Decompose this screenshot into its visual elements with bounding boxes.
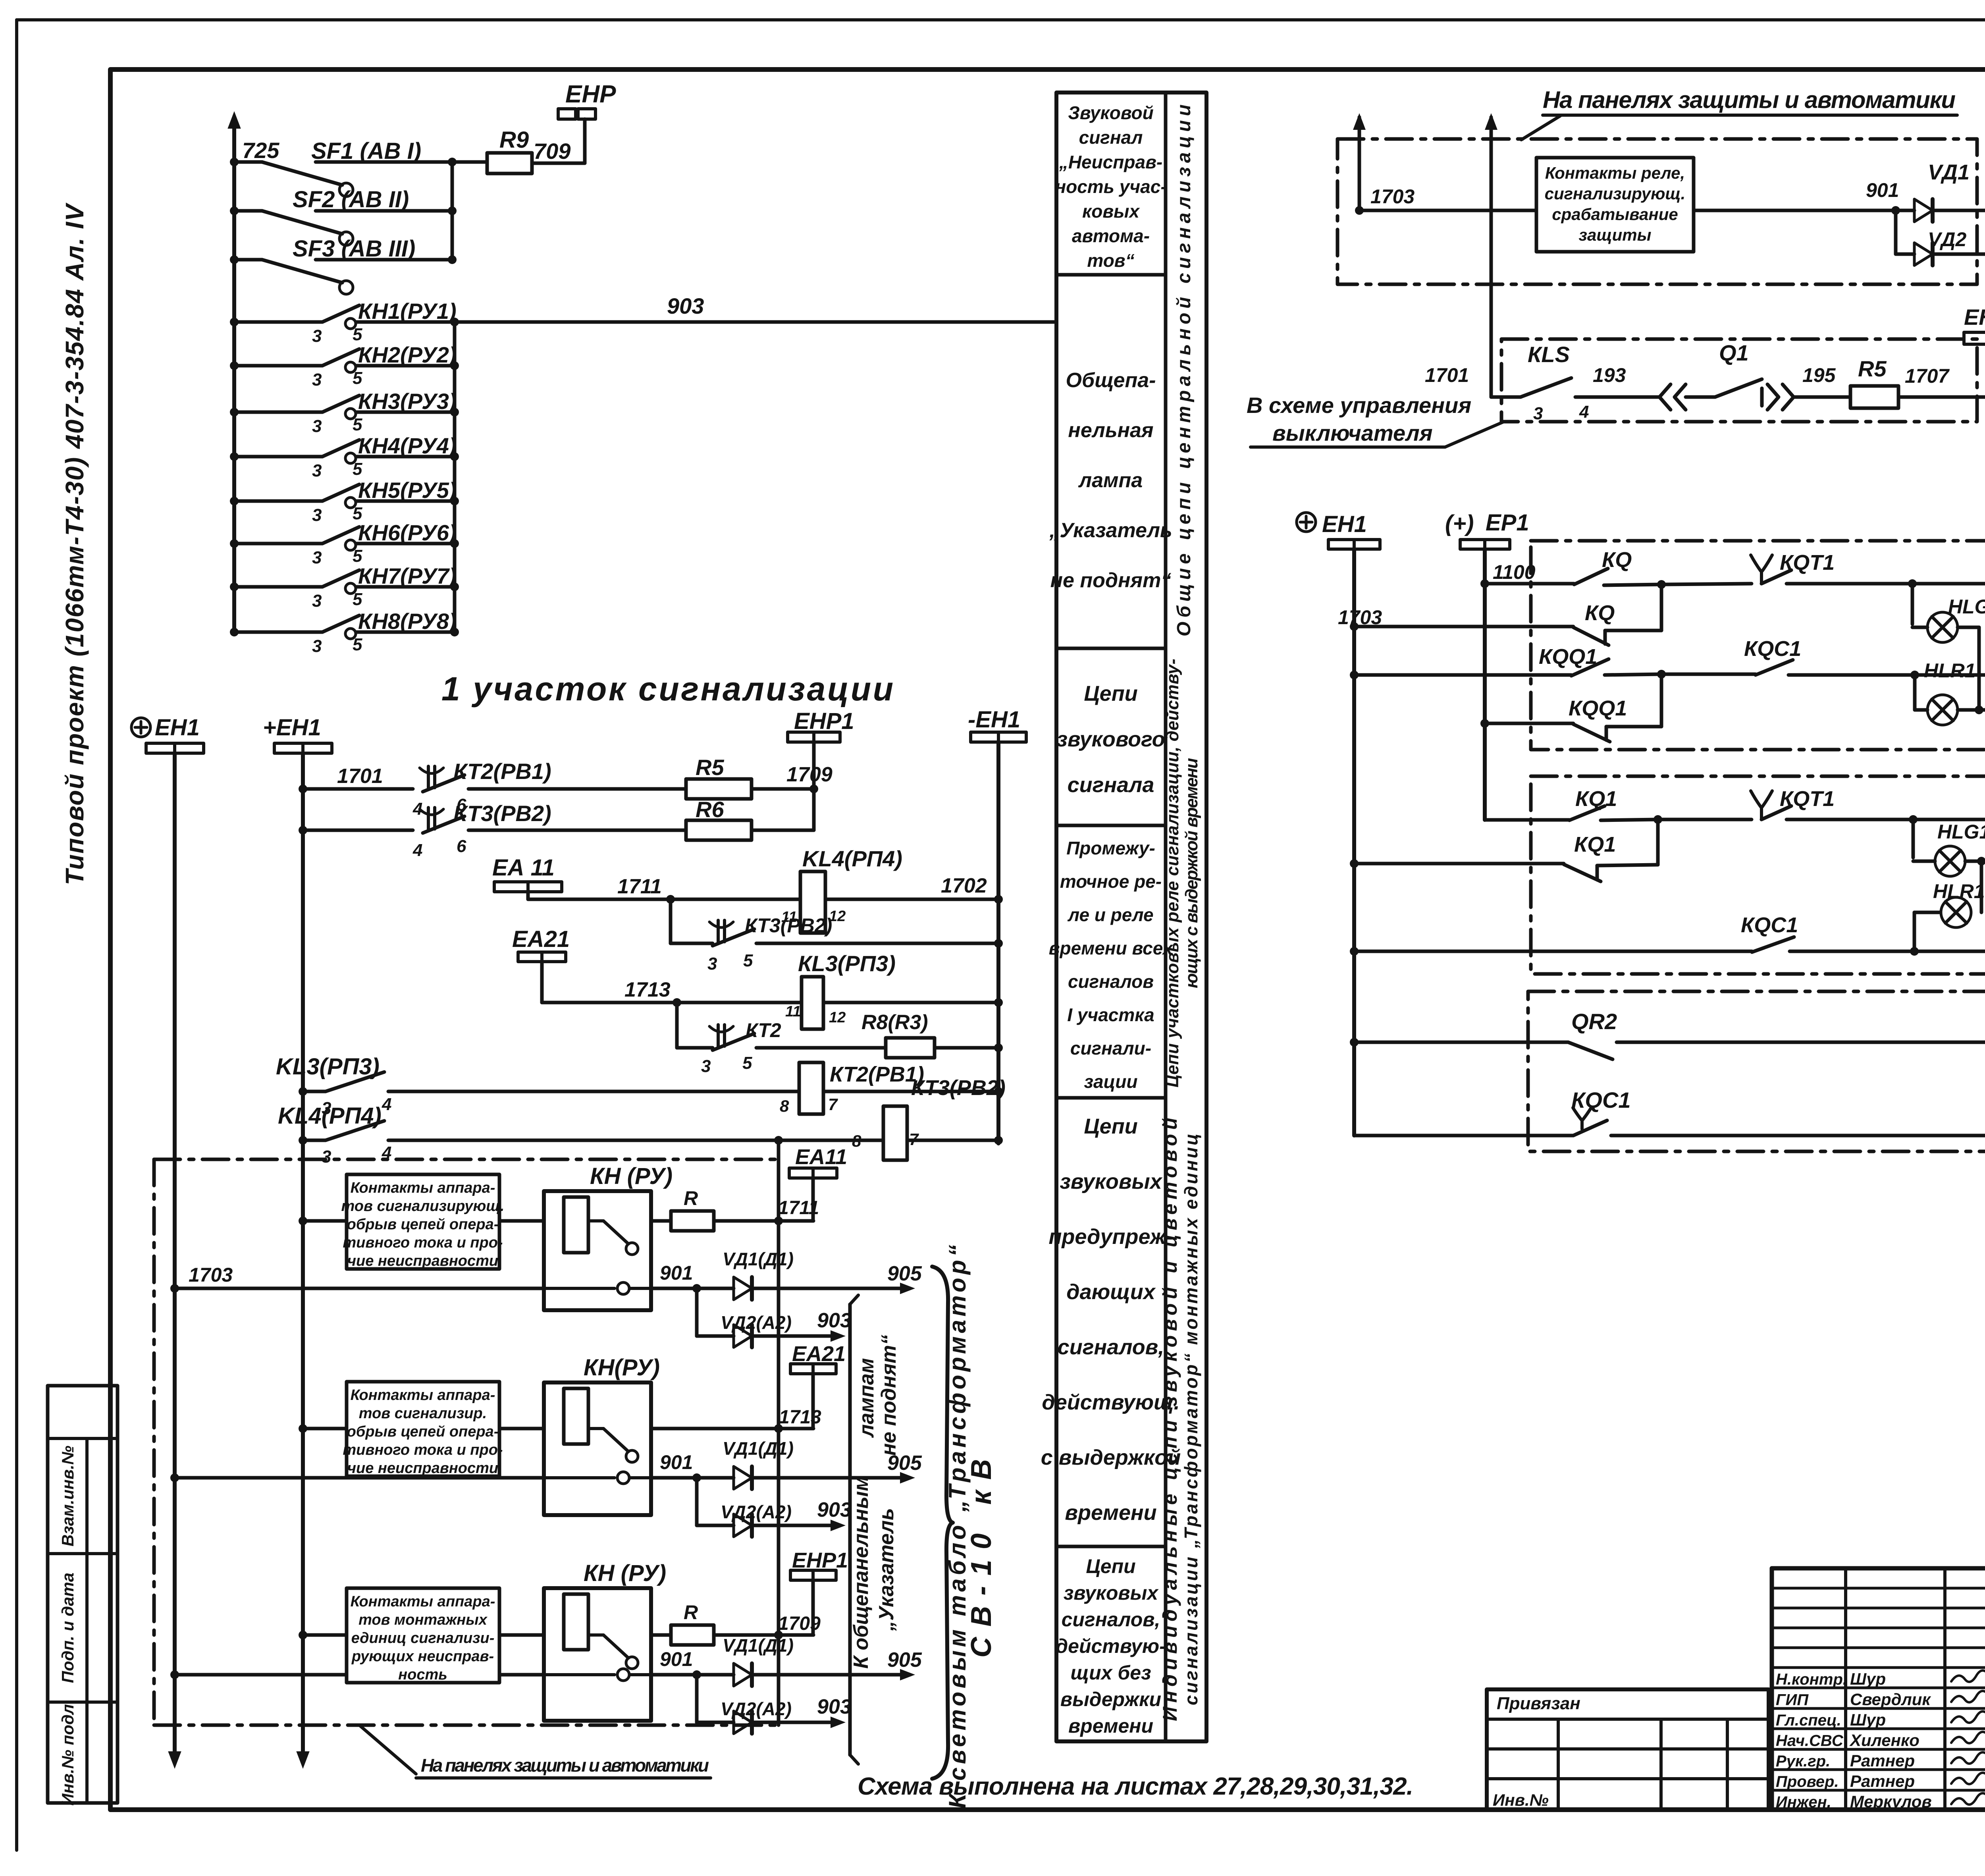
svg-text:Общие цепи центральной сигн: Общие цепи центральной сигнализации: [1174, 104, 1195, 636]
svg-text:„Указатель: „Указатель: [1049, 519, 1172, 542]
svg-text:В схеме управления: В схеме управления: [1247, 393, 1471, 418]
svg-text:ЕА11: ЕА11: [795, 1145, 847, 1169]
svg-text:КL3(РП3): КL3(РП3): [798, 951, 896, 976]
svg-text:обрыв цепей опера-: обрыв цепей опера-: [347, 1423, 499, 1440]
svg-text:Цепи: Цепи: [1084, 1114, 1137, 1138]
svg-text:SF1 (АВ I): SF1 (АВ I): [311, 138, 421, 164]
svg-text:лампам: лампам: [855, 1358, 878, 1438]
svg-text:КН6(РУ6): КН6(РУ6): [358, 520, 457, 545]
svg-text:защиты: защиты: [1579, 226, 1652, 244]
svg-text:Промежу-: Промежу-: [1066, 838, 1155, 858]
svg-text:R8(R3): R8(R3): [861, 1011, 928, 1034]
svg-text:КТ2(РВ1): КТ2(РВ1): [453, 759, 551, 784]
svg-text:VД1: VД1: [1928, 160, 1970, 184]
svg-text:5: 5: [353, 590, 362, 609]
svg-text:времени: времени: [1068, 1715, 1153, 1737]
svg-text:Q1: Q1: [1719, 340, 1749, 365]
svg-text:тов сигнализир.: тов сигнализир.: [359, 1405, 487, 1422]
svg-text:3: 3: [312, 461, 322, 480]
svg-text:3: 3: [312, 591, 322, 611]
svg-text:ковых: ковых: [1082, 201, 1140, 222]
svg-text:Провер.: Провер.: [1776, 1773, 1839, 1791]
svg-text:КН7(РУ7): КН7(РУ7): [358, 563, 457, 588]
svg-text:1707: 1707: [1905, 365, 1950, 387]
svg-text:КН3(РУ3): КН3(РУ3): [358, 389, 457, 414]
svg-text:выдержки: выдержки: [1060, 1688, 1161, 1710]
svg-text:ЕНА1: ЕНА1: [1964, 305, 1985, 330]
svg-text:903: 903: [817, 1695, 852, 1718]
svg-text:КQT1: КQT1: [1780, 787, 1835, 811]
svg-text:единиц сигнализи-: единиц сигнализи-: [351, 1630, 495, 1647]
svg-text:Н.контр.: Н.контр.: [1776, 1671, 1847, 1688]
svg-text:3: 3: [707, 954, 717, 974]
svg-text:тивного тока и про-: тивного тока и про-: [343, 1234, 503, 1251]
svg-text:3: 3: [312, 636, 322, 656]
svg-text:КQT1: КQT1: [1780, 551, 1835, 575]
svg-text:Рук.гр.: Рук.гр.: [1776, 1753, 1830, 1770]
svg-text:ность: ность: [398, 1666, 447, 1683]
svg-text:КТ2: КТ2: [746, 1019, 781, 1041]
svg-text:1 участок сигнализации: 1 участок сигнализации: [441, 670, 893, 708]
svg-text:8: 8: [780, 1097, 789, 1115]
svg-text:5: 5: [743, 951, 753, 970]
svg-text:Подп. и дата: Подп. и дата: [58, 1573, 77, 1683]
svg-text:сигнал: сигнал: [1079, 127, 1143, 148]
svg-text:3: 3: [322, 1147, 331, 1166]
svg-text:тивного тока и про-: тивного тока и про-: [343, 1442, 503, 1458]
svg-text:Схема выполнена на листах 27,: Схема выполнена на листах 27,28,29,30,31…: [858, 1773, 1413, 1800]
svg-text:Контакты реле,: Контакты реле,: [1545, 164, 1685, 182]
svg-text:КТ3(РВ2): КТ3(РВ2): [911, 1076, 1006, 1100]
svg-text:Контакты аппара-: Контакты аппара-: [351, 1387, 495, 1404]
svg-text:КН (РУ): КН (РУ): [584, 1560, 666, 1586]
svg-text:времени всех: времени всех: [1049, 938, 1174, 958]
svg-text:КQ: КQ: [1602, 548, 1632, 572]
svg-text:тов“: тов“: [1087, 250, 1134, 271]
svg-text:KL4(РП4): KL4(РП4): [802, 846, 902, 871]
svg-text:НLG1: НLG1: [1937, 821, 1985, 843]
svg-text:чие неисправности: чие неисправности: [347, 1253, 498, 1269]
svg-text:Контакты аппара-: Контакты аппара-: [351, 1593, 495, 1610]
svg-text:5: 5: [353, 635, 362, 654]
svg-text:R: R: [684, 1187, 698, 1209]
svg-text:„Неисправ-: „Неисправ-: [1059, 152, 1162, 172]
svg-text:Общепа-: Общепа-: [1066, 369, 1156, 392]
svg-text:3: 3: [312, 370, 322, 389]
svg-text:VД2(А2): VД2(А2): [721, 1502, 792, 1522]
svg-text:4: 4: [1579, 402, 1589, 422]
svg-text:щих без: щих без: [1070, 1662, 1151, 1684]
svg-text:КQ: КQ: [1585, 601, 1615, 625]
svg-text:195: 195: [1802, 364, 1836, 386]
svg-text:KL3(РП3): KL3(РП3): [276, 1054, 380, 1080]
svg-text:Свердлик: Свердлик: [1850, 1690, 1931, 1709]
svg-text:I участка: I участка: [1067, 1005, 1154, 1025]
svg-text:Контакты аппара-: Контакты аппара-: [351, 1180, 495, 1196]
svg-text:рующих неисправ-: рующих неисправ-: [351, 1648, 494, 1665]
svg-text:-ЕН1: -ЕН1: [968, 707, 1020, 733]
svg-text:1701: 1701: [1425, 364, 1469, 386]
svg-text:R9: R9: [499, 127, 529, 153]
svg-text:903: 903: [817, 1498, 852, 1521]
svg-text:сигналов: сигналов: [1068, 971, 1154, 992]
svg-text:Цепи: Цепи: [1084, 682, 1137, 706]
svg-text:3: 3: [701, 1057, 711, 1076]
svg-text:ющих с выдержкой времени: ющих с выдержкой времени: [1182, 758, 1201, 988]
svg-text:QR2: QR2: [1571, 1009, 1617, 1034]
svg-text:НLR1: НLR1: [1924, 659, 1976, 682]
svg-text:3: 3: [312, 416, 322, 436]
svg-text:VД2: VД2: [1928, 228, 1966, 251]
svg-text:1701: 1701: [337, 765, 383, 788]
svg-text:обрыв цепей опера-: обрыв цепей опера-: [347, 1216, 499, 1233]
svg-text:1100: 1100: [1493, 561, 1536, 583]
svg-text:Нач.СВС: Нач.СВС: [1776, 1732, 1844, 1750]
svg-text:KL4(РП4): KL4(РП4): [278, 1103, 382, 1129]
svg-text:ЕНР: ЕНР: [565, 81, 616, 108]
svg-text:R5: R5: [696, 755, 724, 780]
svg-text:(+): (+): [1445, 511, 1474, 536]
svg-text:НLG1: НLG1: [1948, 596, 1985, 618]
svg-text:ЕА 11: ЕА 11: [492, 855, 555, 881]
svg-text:709: 709: [534, 139, 570, 164]
svg-text:Инжен.: Инжен.: [1776, 1793, 1831, 1811]
svg-text:VД1(Д1): VД1(Д1): [723, 1635, 794, 1656]
svg-text:КТ3(РВ2): КТ3(РВ2): [453, 801, 551, 826]
svg-text:КН (РУ): КН (РУ): [590, 1163, 673, 1189]
svg-text:не поднят“: не поднят“: [877, 1335, 900, 1456]
svg-text:6: 6: [457, 837, 466, 856]
svg-text:Хиленко: Хиленко: [1849, 1731, 1919, 1750]
svg-text:+ЕН1: +ЕН1: [263, 715, 321, 740]
svg-text:12: 12: [829, 1009, 846, 1026]
svg-text:На панелях защиты и автоматик: На панелях защиты и автоматики: [1543, 87, 1956, 113]
svg-text:ность учас-: ность учас-: [1055, 176, 1166, 197]
svg-text:Цепи: Цепи: [1086, 1555, 1135, 1577]
svg-text:Инв.№ подл.: Инв.№ подл.: [58, 1699, 77, 1805]
svg-text:VД2(А2): VД2(А2): [721, 1699, 792, 1719]
svg-text:сигналов,: сигналов,: [1062, 1608, 1160, 1631]
svg-text:НLR1: НLR1: [1933, 880, 1985, 902]
svg-text:КН(РУ): КН(РУ): [584, 1355, 660, 1380]
svg-text:Звуковой: Звуковой: [1068, 102, 1153, 123]
svg-text:Меркулов: Меркулов: [1850, 1792, 1932, 1811]
svg-text:Гл.спец.: Гл.спец.: [1776, 1712, 1841, 1729]
svg-text:Инв.№: Инв.№: [1493, 1791, 1549, 1809]
svg-text:5: 5: [353, 546, 362, 566]
svg-text:КQС1: КQС1: [1744, 637, 1801, 661]
svg-text:ЕНР1: ЕНР1: [792, 1548, 848, 1572]
svg-text:предупреж-: предупреж-: [1048, 1225, 1173, 1249]
svg-text:КQQ1: КQQ1: [1539, 645, 1597, 669]
svg-text:зации: зации: [1084, 1071, 1138, 1092]
svg-text:К общепанельным: К общепанельным: [850, 1476, 873, 1669]
svg-text:нельная: нельная: [1068, 419, 1153, 442]
svg-text:автома-: автома-: [1072, 226, 1150, 246]
svg-text:сигнализации „Трансформатор“ м: сигнализации „Трансформатор“ монтажных е…: [1181, 1134, 1201, 1705]
svg-text:1703: 1703: [189, 1264, 233, 1286]
svg-text:лампа: лампа: [1078, 469, 1143, 492]
svg-text:На панелях защиты и автоматики: На панелях защиты и автоматики: [421, 1755, 709, 1776]
svg-text:тов сигнализирующ.: тов сигнализирующ.: [341, 1198, 505, 1215]
svg-text:звуковых: звуковых: [1060, 1170, 1162, 1193]
svg-text:КQQ1: КQQ1: [1569, 696, 1627, 720]
svg-text:КН4(РУ4): КН4(РУ4): [358, 433, 457, 458]
svg-text:КТ3(РВ2): КТ3(РВ2): [745, 914, 832, 937]
svg-text:ЕНР1: ЕНР1: [794, 708, 854, 734]
svg-text:905: 905: [887, 1262, 922, 1285]
svg-text:7: 7: [828, 1095, 838, 1114]
svg-text:193: 193: [1593, 364, 1626, 386]
svg-text:903: 903: [667, 293, 704, 318]
svg-text:времени: времени: [1065, 1501, 1156, 1525]
svg-text:Привязан: Привязан: [1497, 1694, 1580, 1713]
svg-text:3: 3: [1533, 404, 1543, 423]
svg-text:901: 901: [1866, 179, 1899, 201]
svg-text:5: 5: [353, 459, 362, 479]
svg-text:КQС1: КQС1: [1741, 913, 1798, 937]
svg-text:R6: R6: [696, 797, 724, 822]
svg-text:SF2 (АВ II): SF2 (АВ II): [293, 187, 409, 212]
svg-text:725: 725: [242, 138, 279, 163]
svg-text:сигнала: сигнала: [1068, 773, 1154, 797]
svg-text:ле и реле: ле и реле: [1067, 904, 1153, 925]
svg-text:Индивидуальные цепи звуковой и: Индивидуальные цепи звуковой и цветовой: [1159, 1118, 1181, 1721]
svg-text:ЕР1: ЕР1: [1486, 510, 1529, 536]
svg-text:1709: 1709: [778, 1613, 821, 1634]
svg-text:VД1(Д1): VД1(Д1): [723, 1249, 794, 1269]
svg-text:дающих: дающих: [1066, 1280, 1156, 1304]
svg-text:действую-: действую-: [1056, 1635, 1166, 1657]
svg-text:VД1(Д1): VД1(Д1): [723, 1438, 794, 1459]
svg-text:3: 3: [312, 548, 322, 567]
svg-text:КН8(РУ8): КН8(РУ8): [358, 609, 457, 634]
svg-text:R: R: [684, 1601, 698, 1623]
svg-text:тов монтажных: тов монтажных: [358, 1612, 488, 1628]
svg-text:Ратнер: Ратнер: [1850, 1751, 1915, 1770]
svg-text:ЕА21: ЕА21: [512, 926, 570, 952]
svg-text:1703: 1703: [1370, 185, 1415, 208]
svg-text:1709: 1709: [786, 763, 833, 786]
svg-text:1702: 1702: [941, 874, 987, 897]
svg-text:ЕА21: ЕА21: [792, 1342, 846, 1366]
svg-text:Шур: Шур: [1850, 1670, 1886, 1688]
svg-text:КLS: КLS: [1528, 342, 1570, 367]
svg-text:КQС1: КQС1: [1571, 1087, 1631, 1112]
svg-text:1703: 1703: [1338, 606, 1382, 629]
svg-text:905: 905: [887, 1648, 922, 1672]
svg-text:ГИП: ГИП: [1776, 1691, 1809, 1709]
svg-text:„Указатель: „Указатель: [875, 1508, 898, 1631]
svg-text:3: 3: [312, 326, 322, 346]
svg-text:5: 5: [742, 1053, 752, 1073]
svg-text:1711: 1711: [617, 875, 662, 898]
svg-text:901: 901: [660, 1262, 693, 1284]
svg-text:1711: 1711: [778, 1197, 819, 1219]
svg-text:Ратнер: Ратнер: [1850, 1772, 1915, 1791]
svg-text:Шур: Шур: [1850, 1710, 1886, 1729]
svg-text:ЕН1: ЕН1: [155, 715, 200, 740]
svg-text:сигнализирующ.: сигнализирующ.: [1545, 184, 1686, 203]
svg-text:VД2(А2): VД2(А2): [721, 1312, 792, 1333]
svg-text:К световым табло „Трансформато: К световым табло „Трансформатор“: [944, 1245, 971, 1809]
svg-text:КН2(РУ2): КН2(РУ2): [358, 342, 457, 367]
svg-text:11: 11: [785, 1003, 801, 1020]
svg-text:КН1(РУ1): КН1(РУ1): [358, 299, 457, 324]
svg-text:КQ1: КQ1: [1575, 787, 1617, 811]
svg-text:сигналов,: сигналов,: [1058, 1335, 1164, 1359]
svg-text:SF3 (АВ III): SF3 (АВ III): [293, 236, 415, 262]
svg-text:4: 4: [412, 799, 422, 819]
svg-text:5: 5: [353, 368, 362, 388]
svg-text:ЕН1: ЕН1: [1322, 511, 1367, 537]
svg-text:звуковых: звуковых: [1064, 1582, 1159, 1604]
svg-text:КQ1: КQ1: [1574, 833, 1616, 856]
svg-text:8: 8: [852, 1132, 861, 1150]
svg-text:чие неисправности: чие неисправности: [347, 1460, 498, 1477]
svg-text:1713: 1713: [779, 1407, 821, 1428]
svg-text:4: 4: [412, 841, 422, 860]
svg-text:выключателя: выключателя: [1272, 420, 1433, 445]
svg-text:R5: R5: [1858, 356, 1887, 381]
svg-text:7: 7: [909, 1130, 919, 1149]
svg-text:звукового: звукового: [1056, 727, 1165, 751]
svg-text:Цепи участковых реле сигнализа: Цепи участковых реле сигнализации, дейст…: [1163, 659, 1182, 1087]
svg-text:901: 901: [660, 1451, 693, 1473]
svg-text:Взам.инв.№: Взам.инв.№: [58, 1446, 77, 1546]
svg-text:срабатывание: срабатывание: [1552, 205, 1678, 224]
svg-text:5: 5: [353, 415, 362, 434]
svg-text:точное ре-: точное ре-: [1060, 871, 1162, 892]
svg-text:1713: 1713: [624, 978, 671, 1001]
svg-text:КН5(РУ5): КН5(РУ5): [358, 478, 457, 503]
svg-text:3: 3: [312, 505, 322, 525]
svg-text:903: 903: [817, 1309, 852, 1332]
svg-text:КТ2(РВ1): КТ2(РВ1): [830, 1062, 924, 1086]
svg-text:4: 4: [382, 1095, 391, 1114]
svg-text:не поднят“: не поднят“: [1050, 569, 1172, 592]
svg-text:5: 5: [353, 325, 362, 344]
svg-text:сигнали-: сигнали-: [1070, 1038, 1151, 1059]
svg-text:Типовой проект (1066тм-Т4-30): Типовой проект (1066тм-Т4-30) 407-3-354.…: [60, 202, 89, 885]
svg-text:901: 901: [660, 1648, 693, 1670]
